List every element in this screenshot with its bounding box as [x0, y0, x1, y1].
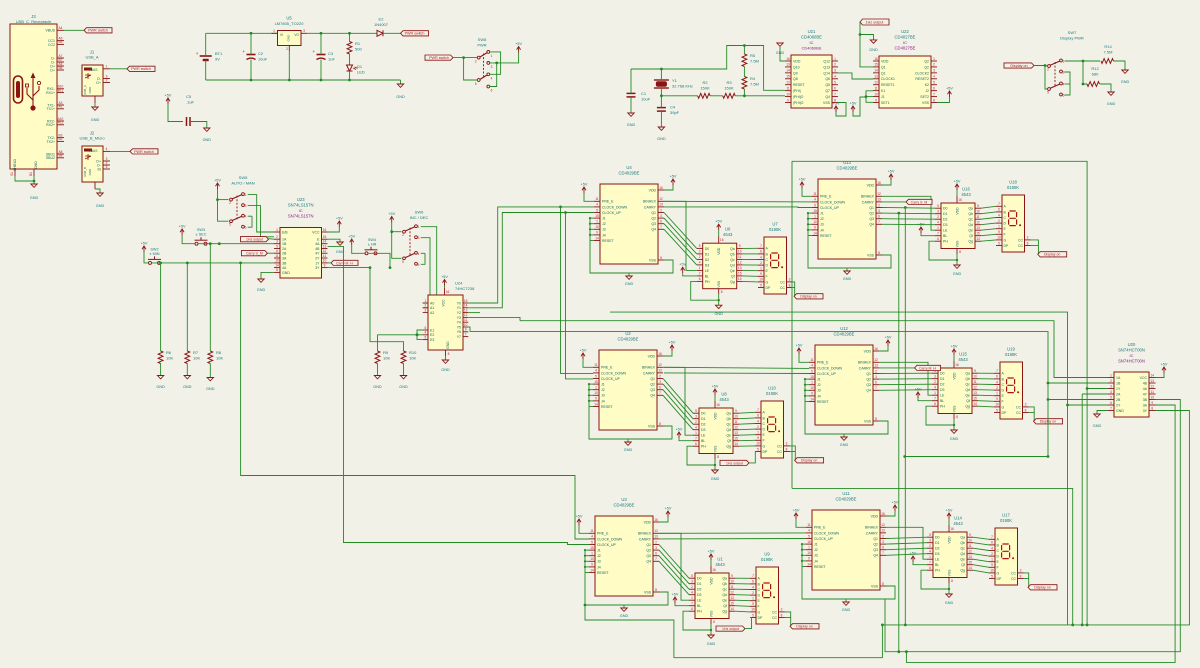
- svg-text:J1: J1: [881, 95, 885, 99]
- svg-text:10K: 10K: [166, 356, 173, 361]
- wire C5 to ground: [190, 122, 207, 129]
- svg-text:1: 1: [273, 29, 275, 33]
- svg-text:Q14: Q14: [823, 71, 830, 75]
- svg-text:3: 3: [1110, 384, 1112, 388]
- capacitor C5 .1uF: [168, 104, 183, 122]
- svg-text:Display on: Display on: [800, 295, 816, 299]
- svg-text:6: 6: [660, 220, 662, 224]
- svg-text:+5V: +5V: [141, 242, 148, 246]
- wire U20 1Y from ring: [1087, 388, 1108, 390]
- svg-text:J2: J2: [601, 388, 605, 392]
- svg-text:F: F: [763, 439, 765, 443]
- svg-text:U1: U1: [717, 557, 723, 562]
- ground at J2: [95, 189, 100, 193]
- svg-text:13: 13: [786, 63, 790, 67]
- svg-text:1Hz output: 1Hz output: [866, 20, 884, 24]
- svg-text:1: 1: [699, 266, 701, 270]
- svg-text:Qc: Qc: [969, 218, 974, 222]
- svg-text:S1: S1: [10, 172, 14, 176]
- svg-text:13: 13: [323, 244, 327, 248]
- svg-text:3: 3: [491, 65, 493, 69]
- svg-text:9: 9: [735, 409, 737, 413]
- display U7 0190K 7-segment: [758, 222, 793, 295]
- regulator U5 LM7805_TO220: [272, 16, 308, 52]
- svg-text:+5V: +5V: [515, 42, 522, 46]
- svg-text:+5V: +5V: [712, 385, 719, 389]
- svg-text:R1: R1: [355, 41, 361, 46]
- svg-text:U15: U15: [959, 352, 967, 357]
- svg-text:14: 14: [594, 402, 598, 406]
- svg-text:3: 3: [1063, 71, 1065, 75]
- svg-text:13: 13: [464, 308, 468, 312]
- svg-text:1: 1: [1110, 373, 1112, 377]
- svg-text:Qg: Qg: [726, 445, 731, 449]
- svg-text:VDD: VDD: [714, 412, 718, 420]
- svg-text:4: 4: [834, 75, 836, 79]
- svg-text:6: 6: [1063, 94, 1065, 98]
- svg-text:10: 10: [995, 403, 999, 407]
- svg-text:7: 7: [660, 225, 662, 229]
- svg-text:0190K: 0190K: [1007, 185, 1019, 190]
- svg-text:U8: U8: [721, 392, 727, 397]
- svg-text:12: 12: [464, 313, 468, 317]
- svg-text:USB_C_Receptacle: USB_C_Receptacle: [16, 19, 52, 24]
- svg-text:2A: 2A: [1116, 392, 1121, 396]
- svg-text:F: F: [1004, 233, 1006, 237]
- svg-text:Q7: Q7: [825, 89, 830, 93]
- svg-text:10uF: 10uF: [641, 97, 651, 102]
- svg-text:VDD: VDD: [956, 207, 960, 215]
- svg-text:7: 7: [933, 92, 935, 96]
- 7-segment digit glyph: [768, 417, 776, 432]
- svg-text:7: 7: [465, 332, 467, 336]
- svg-text:2: 2: [996, 386, 998, 390]
- svg-text:4Y: 4Y: [315, 252, 320, 256]
- svg-text:CD4029BE: CD4029BE: [614, 503, 635, 508]
- svg-text:32.768 KHz: 32.768 KHz: [672, 84, 693, 89]
- svg-text:D3: D3: [705, 263, 710, 267]
- svg-text:C5: C5: [186, 94, 192, 99]
- svg-text:16: 16: [446, 290, 450, 294]
- counter U3 CD4029BE: [576, 497, 672, 618]
- svg-text:SW3: SW3: [197, 228, 205, 232]
- IC U22 CD4027BE: [873, 29, 937, 108]
- resistor R7 10K: [186, 263, 188, 351]
- svg-text:Y7: Y7: [457, 335, 461, 339]
- svg-text:R8: R8: [216, 350, 222, 355]
- svg-text:1: 1: [695, 431, 697, 435]
- svg-text:10: 10: [810, 386, 814, 390]
- svg-text:13: 13: [1150, 379, 1154, 383]
- decoder U8 4543: [676, 385, 739, 482]
- svg-text:VDD: VDD: [644, 520, 652, 524]
- svg-text:U18: U18: [1009, 180, 1017, 185]
- svg-text:CLOCK_DOWN: CLOCK_DOWN: [602, 205, 628, 209]
- svg-text:Qf: Qf: [727, 439, 731, 443]
- resistor R4 7.5M: [742, 77, 747, 90]
- svg-text:PH: PH: [701, 445, 706, 449]
- wire SW8 connections: [453, 57, 477, 59]
- svg-text:F: F: [766, 275, 768, 279]
- svg-text:3A: 3A: [282, 256, 287, 260]
- svg-text:2B: 2B: [282, 252, 287, 256]
- svg-text:6: 6: [491, 89, 493, 93]
- svg-text:PRE_E: PRE_E: [817, 361, 829, 365]
- wire U21 VSS to +5V: [836, 103, 846, 117]
- svg-text:VSS: VSS: [922, 101, 930, 105]
- svg-text:U14: U14: [954, 516, 962, 521]
- svg-text:E3: E3: [430, 338, 434, 342]
- +5V at U1 VDD: [710, 566, 712, 573]
- wire SW7 left: [1034, 65, 1048, 68]
- svg-text:4543: 4543: [953, 521, 963, 526]
- svg-text:D2: D2: [701, 423, 706, 427]
- svg-text:8: 8: [933, 98, 935, 102]
- svg-text:14: 14: [738, 277, 742, 281]
- svg-text:+5V: +5V: [888, 170, 895, 174]
- svg-text:B8: B8: [59, 154, 63, 158]
- svg-text:1A: 1A: [282, 238, 287, 242]
- svg-text:5: 5: [695, 409, 697, 413]
- svg-text:13: 13: [877, 198, 881, 202]
- svg-text:1: 1: [424, 299, 426, 303]
- ground at U22 area: [860, 35, 874, 40]
- svg-text:11: 11: [1151, 390, 1155, 394]
- svg-text:+5V: +5V: [850, 102, 857, 106]
- svg-text:Q4: Q4: [650, 394, 655, 398]
- svg-text:CD4060BE: CD4060BE: [801, 35, 822, 40]
- wire D1 to rail: [349, 71, 351, 80]
- svg-text:D1: D1: [943, 212, 948, 216]
- svg-text:B5: B5: [59, 40, 63, 44]
- svg-text:13: 13: [973, 391, 977, 395]
- wire top rail: [206, 32, 278, 34]
- svg-text:5: 5: [933, 81, 935, 85]
- svg-text:DP: DP: [766, 286, 772, 290]
- svg-text:5: 5: [929, 533, 931, 537]
- svg-text:R10: R10: [409, 350, 417, 355]
- svg-text:CC: CC: [780, 286, 786, 290]
- svg-text:Q4: Q4: [866, 389, 871, 393]
- label Display on (U10): [795, 458, 824, 463]
- svg-text:11: 11: [786, 86, 790, 90]
- svg-text:+5V: +5V: [441, 275, 448, 279]
- svg-text:CLOCK1: CLOCK1: [881, 77, 895, 81]
- svg-text:Q1: Q1: [646, 543, 651, 547]
- IC U24 74HCT238: [423, 281, 475, 357]
- svg-text:+5V: +5V: [580, 349, 587, 353]
- svg-text:VSS: VSS: [710, 610, 714, 618]
- svg-text:J4: J4: [602, 233, 606, 237]
- svg-text:CD4060BE: CD4060BE: [801, 46, 821, 51]
- wire osc top run: [631, 46, 785, 91]
- svg-text:Y6: Y6: [457, 330, 461, 334]
- svg-text:Display on: Display on: [796, 625, 812, 629]
- svg-text:8: 8: [956, 415, 958, 419]
- +5V for SW5: [216, 183, 220, 186]
- svg-text:Carry S_M: Carry S_M: [246, 252, 263, 256]
- svg-text:10: 10: [874, 92, 878, 96]
- svg-text:A1: A1: [430, 306, 434, 310]
- svg-text:Q1: Q1: [651, 211, 656, 215]
- svg-text:VSS: VSS: [948, 569, 952, 577]
- svg-text:1: 1: [934, 391, 936, 395]
- svg-text:GND: GND: [624, 448, 633, 452]
- svg-text:9: 9: [998, 230, 1000, 234]
- svg-text:1Y: 1Y: [1116, 387, 1121, 391]
- svg-text:GND: GND: [441, 368, 450, 372]
- svg-text:Qf: Qf: [961, 563, 965, 567]
- wires U1 outputs to U9 segments: [735, 577, 750, 579]
- svg-text:7: 7: [1110, 406, 1112, 410]
- svg-text:15: 15: [976, 232, 980, 236]
- svg-text:4: 4: [424, 331, 426, 335]
- svg-text:CLOCK_DOWN: CLOCK_DOWN: [820, 200, 846, 204]
- label Display on (U17): [1028, 585, 1057, 590]
- svg-text:A11: A11: [58, 121, 64, 125]
- svg-text:VDD: VDD: [648, 354, 656, 358]
- svg-text:GND: GND: [30, 196, 39, 200]
- svg-text:U17: U17: [1002, 513, 1010, 518]
- svg-text:5: 5: [424, 335, 426, 339]
- wire R1: [349, 33, 351, 41]
- wire ring right vertical to bottom: [1086, 389, 1088, 625]
- svg-text:12: 12: [323, 249, 327, 253]
- +5V at U12 VDD: [886, 340, 890, 343]
- svg-text:3: 3: [1025, 403, 1027, 407]
- svg-text:GND: GND: [869, 48, 878, 52]
- ground at C1: [630, 97, 632, 113]
- svg-text:U7: U7: [772, 222, 778, 227]
- svg-text:CC2: CC2: [48, 43, 55, 47]
- switch SW6 INC / DEC: [402, 210, 428, 267]
- ground at U4: [628, 273, 630, 276]
- svg-text:9: 9: [591, 563, 593, 567]
- svg-text:Qg: Qg: [730, 280, 735, 284]
- svg-text:3: 3: [789, 278, 791, 282]
- wire SW3: [182, 235, 195, 244]
- svg-text:5: 5: [591, 540, 593, 544]
- svg-text:0190K: 0190K: [766, 391, 778, 396]
- svg-text:U23: U23: [297, 197, 305, 202]
- +5V at U4 PRE_E: [582, 187, 586, 190]
- 7-segment digit glyph: [771, 253, 779, 268]
- svg-text:J3: J3: [601, 394, 605, 398]
- svg-text:5: 5: [276, 244, 278, 248]
- svg-text:GND: GND: [1116, 409, 1124, 413]
- label PWR switch (output): [401, 31, 429, 36]
- svg-text:13: 13: [968, 555, 972, 559]
- svg-text:5: 5: [691, 574, 693, 578]
- svg-text:Qd: Qd: [730, 263, 735, 267]
- svg-text:D0: D0: [943, 207, 948, 211]
- svg-text:10: 10: [997, 236, 1001, 240]
- 7-segment digit glyph: [763, 583, 771, 598]
- svg-text:D3: D3: [701, 428, 706, 432]
- +5V for SW4: [350, 239, 354, 242]
- svg-text:GND: GND: [206, 387, 215, 391]
- wire row B outputs bus y=456.5: [905, 456, 1048, 458]
- 7-segment digit glyph: [1009, 211, 1017, 226]
- svg-text:CLOCK_DOWN: CLOCK_DOWN: [817, 366, 843, 370]
- svg-text:D1: D1: [697, 582, 702, 586]
- svg-text:14: 14: [786, 69, 790, 73]
- svg-text:11: 11: [323, 254, 327, 258]
- ground at U24: [445, 356, 447, 360]
- svg-text:+5V: +5V: [388, 212, 395, 216]
- svg-text:11: 11: [734, 420, 738, 424]
- svg-text:4543: 4543: [715, 562, 725, 567]
- svg-text:16: 16: [659, 186, 663, 190]
- svg-text:GND: GND: [842, 608, 851, 612]
- svg-text:0190K: 0190K: [1005, 352, 1017, 357]
- svg-text:Q2: Q2: [924, 59, 929, 63]
- connector J2 USB_B_Micro: [79, 131, 110, 190]
- ground at J3: [31, 184, 37, 187]
- capacitor C2 10uF: [243, 49, 268, 62]
- svg-text:F: F: [1002, 400, 1004, 404]
- svg-text:13: 13: [874, 364, 878, 368]
- svg-text:7.5M: 7.5M: [750, 59, 759, 64]
- svg-text:VBUS: VBUS: [89, 149, 99, 153]
- resistor R2 150K: [698, 93, 711, 98]
- svg-text:13: 13: [881, 529, 885, 533]
- wire U3 BINHEX to U11 clock down: [659, 532, 806, 534]
- ground at U16 VSS: [956, 249, 958, 255]
- wire row C left risers: [585, 605, 674, 658]
- wire U16 PH loop: [929, 241, 957, 260]
- svg-text:2: 2: [991, 552, 993, 556]
- svg-text:CLOCK_UP: CLOCK_UP: [814, 537, 834, 541]
- svg-text:10K: 10K: [193, 356, 200, 361]
- svg-text:16: 16: [786, 57, 790, 61]
- svg-text:0190K: 0190K: [761, 557, 773, 562]
- svg-text:2: 2: [937, 215, 939, 219]
- +5V for SW3: [180, 229, 184, 232]
- svg-text:12: 12: [730, 591, 734, 595]
- svg-text:4: 4: [691, 591, 693, 595]
- svg-text:1: 1: [1063, 60, 1065, 64]
- svg-text:8: 8: [878, 251, 880, 255]
- svg-text:7: 7: [699, 272, 701, 276]
- wire U24 Y2/Y3 stubs: [468, 312, 480, 314]
- svg-text:5: 5: [596, 208, 598, 212]
- svg-text:Qb: Qb: [968, 212, 973, 216]
- svg-text:J4: J4: [814, 559, 818, 563]
- label Carry M_H (U12 output): [915, 365, 941, 370]
- +5V at U16 BL: [919, 227, 923, 230]
- wire U18 CC pins: [1031, 240, 1039, 246]
- svg-text:G: G: [758, 610, 761, 614]
- wire U12 J-inputs / VSS loop: [805, 378, 809, 380]
- svg-text:4: 4: [596, 203, 598, 207]
- wire U23 3Y output to R10: [328, 268, 404, 351]
- decoder U15 4543: [915, 345, 978, 442]
- svg-text:150K: 150K: [724, 86, 734, 91]
- svg-text:J3: J3: [597, 560, 601, 564]
- svg-text:CC: CC: [772, 616, 778, 620]
- svg-text:8: 8: [786, 447, 788, 451]
- svg-text:10: 10: [275, 259, 279, 263]
- svg-text:CC: CC: [1011, 577, 1017, 581]
- wire U11 BINHEX to U14 LE: [886, 527, 927, 559]
- svg-text:6: 6: [834, 86, 836, 90]
- svg-text:SN74LS157N: SN74LS157N: [288, 203, 314, 208]
- svg-text:Qe: Qe: [960, 558, 965, 562]
- wire U1 PH loop: [683, 611, 711, 630]
- svg-text:16: 16: [716, 403, 720, 407]
- svg-text:Qc: Qc: [727, 423, 732, 427]
- svg-text:D2: D2: [940, 383, 945, 387]
- wire U7 CC pins: [793, 282, 795, 288]
- wire U2 CARRY to U12 clock up: [664, 372, 809, 375]
- ground at U13: [846, 268, 848, 271]
- wire U20 VCC to +5V: [1156, 373, 1165, 378]
- svg-text:7: 7: [757, 408, 759, 412]
- ground at U15 VSS: [953, 414, 955, 420]
- svg-text:J1: J1: [820, 212, 824, 216]
- svg-text:14: 14: [807, 562, 811, 566]
- svg-text:Qd: Qd: [726, 428, 731, 432]
- svg-text:9: 9: [752, 602, 754, 606]
- label Display on (U7): [794, 294, 823, 299]
- svg-text:Display on: Display on: [1044, 253, 1060, 257]
- svg-text:E2: E2: [379, 17, 385, 22]
- svg-text:4: 4: [757, 419, 759, 423]
- svg-text:6: 6: [752, 580, 754, 584]
- svg-text:15: 15: [968, 561, 972, 565]
- svg-text:5: 5: [811, 369, 813, 373]
- resistor R3 150K: [723, 93, 736, 98]
- svg-text:2: 2: [659, 374, 661, 378]
- svg-text:8: 8: [789, 283, 791, 287]
- svg-text:VSS: VSS: [717, 280, 721, 288]
- svg-text:Q2: Q2: [651, 217, 656, 221]
- svg-text:GND: GND: [396, 95, 405, 99]
- svg-text:PRE_E: PRE_E: [601, 366, 613, 370]
- svg-text:8: 8: [875, 417, 877, 421]
- svg-text:CD4029BE: CD4029BE: [837, 166, 858, 171]
- svg-text:+5V: +5V: [793, 509, 800, 513]
- svg-text:CC: CC: [1016, 405, 1022, 409]
- svg-text:Display PWR: Display PWR: [1060, 36, 1084, 41]
- svg-text:CC: CC: [1011, 571, 1017, 575]
- svg-text:4: 4: [811, 364, 813, 368]
- svg-text:6: 6: [699, 277, 701, 281]
- svg-text:DP: DP: [1004, 244, 1010, 248]
- svg-text:BL: BL: [705, 274, 709, 278]
- svg-text:CLOCK_UP: CLOCK_UP: [602, 211, 622, 215]
- svg-text:D3: D3: [943, 223, 948, 227]
- svg-text:2B: 2B: [1116, 398, 1121, 402]
- svg-text:6: 6: [424, 326, 426, 330]
- svg-text:4A: 4A: [282, 266, 287, 270]
- capacitor C1 10uF: [627, 91, 651, 102]
- svg-text:Q1: Q1: [881, 65, 886, 69]
- svg-text:B1: B1: [29, 172, 33, 176]
- svg-text:GND: GND: [88, 86, 92, 94]
- svg-text:+5V: +5V: [679, 263, 686, 267]
- svg-text:9: 9: [596, 231, 598, 235]
- svg-text:Qb: Qb: [726, 417, 731, 421]
- wire U8 PH loop: [687, 446, 715, 465]
- svg-text:3: 3: [695, 415, 697, 419]
- switch SW2 +- MIN: [149, 261, 152, 264]
- svg-text:5: 5: [106, 165, 108, 169]
- svg-text:D1: D1: [701, 417, 706, 421]
- +5V at U16 VDD: [956, 196, 958, 203]
- wire J2 VBUS to PWR switch label: [110, 150, 130, 152]
